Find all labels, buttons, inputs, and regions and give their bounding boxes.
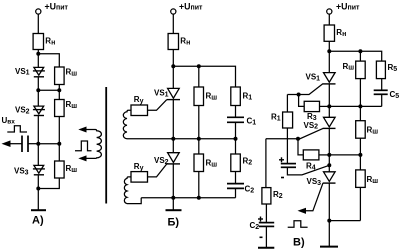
svg-text:Б): Б): [168, 216, 180, 228]
svg-text:А): А): [32, 215, 44, 227]
svg-text:В): В): [293, 236, 305, 248]
